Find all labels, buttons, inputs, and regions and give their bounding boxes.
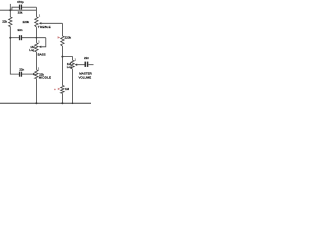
wire right rail lower <box>61 93 63 103</box>
svg-text:470p: 470p <box>17 0 24 4</box>
svg-text:22n: 22n <box>19 67 24 71</box>
svg-text:33n: 33n <box>17 28 22 32</box>
arrow master wiper <box>75 64 78 66</box>
wire right rail middle <box>61 46 63 85</box>
resistor 22k <box>9 17 12 27</box>
node master branch junction <box>61 56 63 58</box>
svg-text:220k: 220k <box>65 36 72 40</box>
potentiometer master 1M <box>71 60 74 69</box>
resistor 220k <box>61 36 64 46</box>
wire middle wiper <box>22 73 33 75</box>
wire master wiper <box>77 64 85 66</box>
wire bass cap run <box>10 37 19 39</box>
capacitor 33n bass <box>19 35 20 40</box>
svg-text:33k: 33k <box>18 10 23 14</box>
arrow bass wiper <box>39 46 42 48</box>
node ground middle <box>35 102 37 104</box>
svg-text:220k: 220k <box>23 20 30 24</box>
arrow treble wiper <box>39 22 42 24</box>
potentiometer bass 1M <box>35 38 37 43</box>
node ground right rail <box>61 102 63 104</box>
node input stub <box>9 4 11 10</box>
marker in dot <box>54 89 56 91</box>
wire treble column lower <box>35 27 37 38</box>
potentiometer treble 220k <box>35 17 38 27</box>
ground rail <box>0 102 91 104</box>
marker out arrow <box>58 36 61 38</box>
wire right rail upper <box>61 23 63 36</box>
wire middle to ground <box>35 79 37 104</box>
node ground master <box>72 103 74 105</box>
wire treble wiper <box>41 22 62 24</box>
svg-text:Log: Log <box>67 65 72 69</box>
svg-text:VOLUME: VOLUME <box>79 75 92 79</box>
wire bass to middle <box>35 52 37 70</box>
wire input top <box>0 9 36 11</box>
svg-text:TREBLE: TREBLE <box>38 25 51 29</box>
wire master branch <box>62 57 72 61</box>
capacitor 470p <box>19 5 20 10</box>
wire bass wiper riser <box>41 38 46 47</box>
arrow middle wiper <box>33 73 36 75</box>
node treble bottom tee <box>36 37 38 39</box>
svg-text:1M: 1M <box>65 87 70 91</box>
node bass cap junction <box>9 37 11 39</box>
svg-text:BASS: BASS <box>38 53 46 57</box>
svg-text:22k: 22k <box>2 19 7 23</box>
marker in arrow <box>58 88 61 90</box>
wire left rail upper <box>9 10 11 17</box>
potentiometer middle 22k <box>35 70 38 79</box>
wire master to ground <box>72 69 74 103</box>
svg-text:Log: Log <box>29 48 34 52</box>
svg-text:22n: 22n <box>84 56 89 60</box>
wire left rail lower <box>10 27 19 75</box>
wire treble column upper <box>35 7 37 17</box>
node input junction <box>9 9 11 11</box>
wire cap branch <box>12 7 19 10</box>
wire output <box>88 64 93 66</box>
resistor 1M <box>61 85 64 93</box>
svg-text:MIDDLE: MIDDLE <box>39 75 52 79</box>
capacitor 22n output <box>85 62 87 67</box>
capacitor 22n middle <box>19 72 20 77</box>
